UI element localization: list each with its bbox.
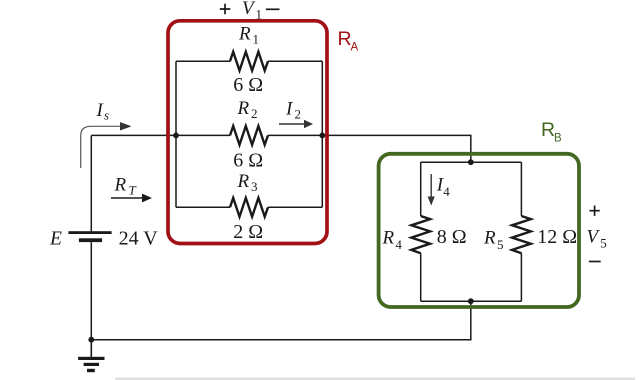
svg-text:R: R bbox=[382, 228, 395, 249]
wire: R3 bottom wire right part bbox=[268, 206, 322, 208]
wire: R2 right side to RB drop bbox=[268, 135, 471, 162]
node: RB bottom junction dot bbox=[468, 298, 474, 304]
wire: R3 bottom wire left part bbox=[176, 206, 230, 208]
svg-text:R: R bbox=[237, 98, 250, 119]
node: RB top junction dot bbox=[468, 159, 474, 165]
svg-text:R: R bbox=[238, 24, 251, 45]
svg-text:E: E bbox=[49, 229, 62, 250]
node: junction dot right of R2 bbox=[319, 133, 325, 139]
svg-text:6 Ω: 6 Ω bbox=[233, 150, 263, 172]
node: ground junction dot bbox=[88, 337, 94, 343]
svg-text:2: 2 bbox=[251, 106, 258, 121]
box RB green rounded rectangle bbox=[379, 154, 579, 307]
svg-text:R: R bbox=[114, 175, 127, 196]
svg-text:2: 2 bbox=[295, 107, 302, 122]
box RA red rounded rectangle bbox=[168, 21, 327, 244]
wire: RA inner box left vertical bbox=[175, 61, 177, 207]
resistor R5 bbox=[512, 216, 531, 253]
battery E short plate bbox=[79, 238, 102, 242]
node: junction dot left of R2 bbox=[173, 133, 179, 139]
svg-text:3: 3 bbox=[251, 179, 258, 194]
current arrow I2 bbox=[279, 123, 305, 125]
svg-text:R: R bbox=[338, 28, 352, 50]
svg-text:4: 4 bbox=[443, 184, 450, 199]
svg-text:2 Ω: 2 Ω bbox=[233, 221, 263, 243]
wire: RB left vertical top part bbox=[420, 162, 422, 216]
label +V1- top bbox=[220, 4, 231, 15]
wire: main horizontal left segment to R2 bbox=[91, 134, 230, 136]
svg-text:R: R bbox=[237, 171, 250, 192]
svg-text:R: R bbox=[541, 119, 555, 141]
wire: RB inner box bottom bbox=[421, 300, 522, 302]
svg-text:12 Ω: 12 Ω bbox=[537, 226, 577, 248]
svg-text:R: R bbox=[483, 228, 496, 249]
current arrow Is (curved) bbox=[81, 126, 121, 168]
current arrow I4 bbox=[430, 174, 432, 197]
svg-text:T: T bbox=[129, 183, 137, 198]
ground bbox=[90, 340, 92, 357]
svg-text:24 V: 24 V bbox=[119, 228, 159, 250]
svg-text:A: A bbox=[351, 42, 359, 54]
wire: RB right vertical top part bbox=[520, 162, 522, 216]
svg-text:B: B bbox=[554, 133, 562, 145]
svg-text:1: 1 bbox=[253, 32, 260, 47]
wire: RB right vertical bottom part bbox=[520, 253, 522, 301]
resistor R3 bbox=[230, 198, 268, 217]
wire: R1 top wire right part bbox=[268, 60, 322, 62]
svg-text:1: 1 bbox=[256, 7, 263, 22]
wire: RB left vertical bottom part bbox=[420, 253, 422, 301]
label +V5- right bbox=[589, 206, 599, 216]
resistor R1 bbox=[230, 52, 268, 71]
wire: RB inner box top bbox=[421, 161, 522, 163]
svg-text:4: 4 bbox=[395, 237, 402, 252]
decorative faint bottom streak bbox=[115, 378, 635, 380]
wire: left vertical from top corner to battery top bbox=[90, 135, 92, 231]
svg-text:5: 5 bbox=[600, 236, 607, 251]
wire: R1 top wire left part bbox=[176, 60, 230, 62]
battery E long plate bbox=[68, 231, 111, 234]
svg-text:8 Ω: 8 Ω bbox=[437, 226, 467, 248]
wire: RA inner box right vertical bbox=[321, 61, 323, 207]
wire: battery bottom to ground junction bbox=[90, 242, 92, 340]
resistor R2 bbox=[230, 126, 268, 145]
resistor R4 bbox=[411, 216, 430, 253]
svg-text:6 Ω: 6 Ω bbox=[233, 74, 263, 96]
arrow RT bbox=[111, 197, 143, 199]
svg-text:5: 5 bbox=[497, 237, 504, 252]
wire: bottom horizontal bbox=[91, 301, 471, 340]
svg-text:s: s bbox=[104, 108, 109, 123]
